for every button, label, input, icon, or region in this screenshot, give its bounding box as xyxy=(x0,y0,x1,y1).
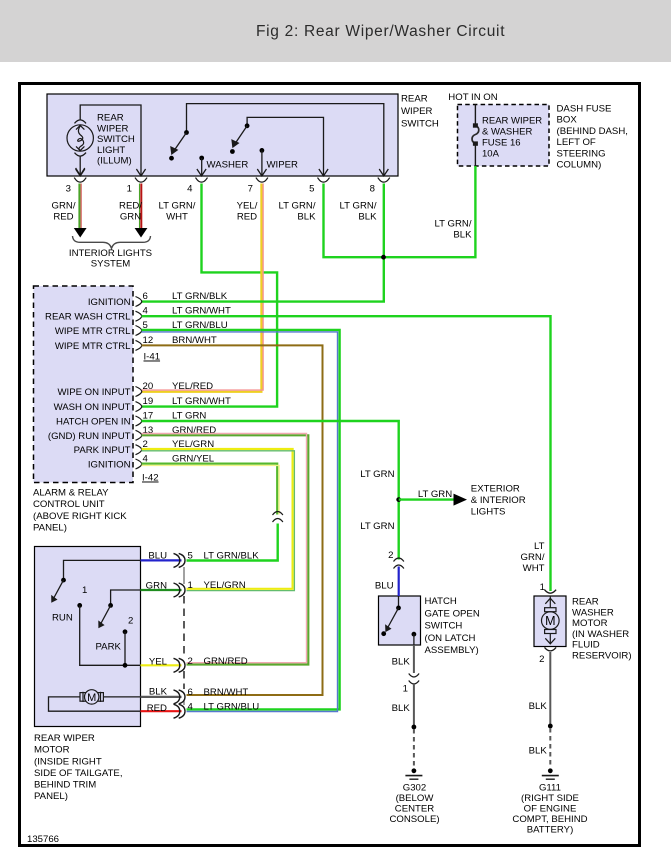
svg-text:REAR: REAR xyxy=(97,113,124,124)
INTERIOR LIGHTS SYSTEM label xyxy=(69,248,152,270)
control unit pin 4 rear wash xyxy=(45,306,231,323)
break splice hatch ground wire xyxy=(409,674,419,685)
svg-text:19: 19 xyxy=(143,396,154,407)
svg-text:2: 2 xyxy=(128,616,133,627)
washer motor internals xyxy=(542,596,560,644)
svg-text:7: 7 xyxy=(248,184,253,195)
hatch switch internals xyxy=(381,596,416,645)
junction exterior lights node xyxy=(396,497,401,502)
svg-text:WIPER: WIPER xyxy=(401,106,433,117)
svg-text:OF ENGINE: OF ENGINE xyxy=(524,803,577,814)
park switch feed line xyxy=(111,590,141,604)
YEL/RED label pin 7 xyxy=(237,201,258,223)
svg-text:PANEL): PANEL) xyxy=(34,791,68,802)
svg-text:GRN/: GRN/ xyxy=(52,201,76,212)
I-41 label xyxy=(144,352,161,363)
svg-text:LT GRN: LT GRN xyxy=(360,469,394,480)
connector pin 1 xyxy=(146,580,246,597)
svg-text:WASHER: WASHER xyxy=(572,607,614,618)
svg-text:COMPT, BEHIND: COMPT, BEHIND xyxy=(512,814,587,825)
svg-text:BLK: BLK xyxy=(149,687,168,698)
svg-text:FUSE 16: FUSE 16 xyxy=(482,138,521,149)
svg-text:SYSTEM: SYSTEM xyxy=(91,259,130,270)
LT GRN/WHT label pin 4 xyxy=(159,201,196,223)
svg-text:IGNITION: IGNITION xyxy=(88,460,131,471)
svg-text:RESERVOIR): RESERVOIR) xyxy=(572,651,632,662)
RUN label xyxy=(52,612,73,623)
svg-text:LT GRN: LT GRN xyxy=(418,489,452,500)
svg-text:1: 1 xyxy=(403,684,408,695)
wire GRN/YEL pin4 CU upper segment xyxy=(142,464,280,515)
svg-text:1: 1 xyxy=(127,184,132,195)
svg-text:M: M xyxy=(87,692,96,704)
G302 label xyxy=(389,782,439,825)
135766 id label xyxy=(27,834,59,845)
svg-text:6: 6 xyxy=(188,687,193,698)
wire BLK hatch lower xyxy=(413,683,415,727)
svg-text:YEL: YEL xyxy=(149,656,168,667)
svg-text:5: 5 xyxy=(188,550,193,561)
svg-text:(BELOW: (BELOW xyxy=(396,793,435,804)
svg-text:LIGHTS: LIGHTS xyxy=(471,506,506,517)
svg-text:BRN/WHT: BRN/WHT xyxy=(204,687,249,698)
pin 1 hatch label xyxy=(403,684,408,695)
BLK label hatch upper xyxy=(392,657,411,668)
junction hatch ground splice xyxy=(412,725,417,730)
svg-text:ALARM & RELAY: ALARM & RELAY xyxy=(33,487,109,498)
rear wiper switch light label xyxy=(97,113,135,167)
dashed BLK wire to G302 xyxy=(413,729,415,767)
G111 label xyxy=(512,782,587,835)
wire BLU to hatch switch xyxy=(398,567,400,597)
svg-text:BLU: BLU xyxy=(148,550,167,561)
wire GRN/RED pin13 CU to connector pin2 xyxy=(142,434,309,665)
GRN/RED label xyxy=(52,201,76,223)
svg-text:WASHER: WASHER xyxy=(207,160,249,171)
svg-text:DASH FUSE: DASH FUSE xyxy=(557,104,612,115)
svg-text:(BEHIND DASH,: (BEHIND DASH, xyxy=(557,126,628,137)
svg-text:RED: RED xyxy=(237,211,257,222)
svg-text:STEERING: STEERING xyxy=(557,148,606,159)
wire LT GRN pin17 CU to hatch switch xyxy=(142,421,399,560)
svg-text:LT GRN: LT GRN xyxy=(360,521,394,532)
svg-text:BOX: BOX xyxy=(557,115,578,126)
svg-text:SWITCH: SWITCH xyxy=(97,134,135,145)
wire RED motor xyxy=(141,710,182,712)
LT GRN label below junction xyxy=(360,521,394,532)
break splice hatch feed xyxy=(394,558,404,569)
control unit pin 12 xyxy=(55,335,217,352)
arrow to exterior lights xyxy=(399,489,467,506)
svg-text:CONSOLE): CONSOLE) xyxy=(389,814,439,825)
svg-text:PANEL): PANEL) xyxy=(33,523,67,534)
svg-text:20: 20 xyxy=(143,381,154,392)
RED/GRN label xyxy=(119,201,142,223)
svg-text:BLK: BLK xyxy=(392,703,411,714)
svg-text:RUN: RUN xyxy=(52,612,73,623)
EXTERIOR & INTERIOR LIGHTS label xyxy=(471,483,526,517)
pin 1 of switch xyxy=(127,169,147,195)
REAR WIPER SWITCH label xyxy=(401,94,439,130)
svg-text:LIGHT: LIGHT xyxy=(97,145,125,156)
wire LT GRN/BLK from fuse xyxy=(384,166,476,257)
WASHER label xyxy=(207,160,249,171)
LT GRN/BLK label pin 5 xyxy=(279,201,317,223)
bulb socket cup top xyxy=(75,120,87,124)
svg-text:LT GRN/: LT GRN/ xyxy=(340,201,377,212)
connector pin 6 xyxy=(149,687,249,704)
svg-text:SWITCH: SWITCH xyxy=(401,119,439,130)
svg-text:LT GRN/: LT GRN/ xyxy=(435,218,472,229)
svg-text:GRN/: GRN/ xyxy=(521,552,545,563)
bulb lower wire with arrow xyxy=(76,157,85,176)
svg-text:YEL/RED: YEL/RED xyxy=(172,381,213,392)
svg-text:BLK: BLK xyxy=(358,211,377,222)
I-42 label xyxy=(142,473,159,484)
svg-text:BRN/WHT: BRN/WHT xyxy=(172,335,217,346)
svg-text:ASSEMBLY): ASSEMBLY) xyxy=(425,645,479,656)
BLK label washer upper xyxy=(529,701,548,712)
svg-text:SIDE OF TAILGATE,: SIDE OF TAILGATE, xyxy=(34,768,123,779)
wire YEL/GRN pin2 CU to connector pin1 xyxy=(142,449,295,591)
svg-text:I-42: I-42 xyxy=(142,473,159,484)
control unit pin 6 xyxy=(88,291,228,308)
washer switch xyxy=(169,104,384,176)
svg-text:LT GRN/BLK: LT GRN/BLK xyxy=(204,550,260,561)
PARK label xyxy=(96,642,122,653)
connector pin 5 xyxy=(148,550,259,567)
wiper contact pin line xyxy=(260,148,265,175)
pin 1 washer motor xyxy=(540,582,556,593)
svg-text:WIPER: WIPER xyxy=(97,123,129,134)
fuse 16 element xyxy=(472,105,479,167)
svg-text:LT GRN/: LT GRN/ xyxy=(279,201,316,212)
svg-text:BLK: BLK xyxy=(529,701,548,712)
svg-text:(IN WASHER: (IN WASHER xyxy=(572,629,629,640)
dash fuse box xyxy=(458,105,550,167)
WIPER label xyxy=(267,160,299,171)
wire RED/GRN pin 1 xyxy=(135,184,148,238)
svg-text:12: 12 xyxy=(143,335,154,346)
wire GRN motor xyxy=(141,589,182,591)
LT GRN label above junction xyxy=(360,469,394,480)
svg-text:135766: 135766 xyxy=(27,834,59,845)
break splice on GRN/YEL wire xyxy=(273,512,283,523)
control unit pin 20 xyxy=(57,381,213,398)
HOT IN ON label xyxy=(448,92,497,103)
motor to RED exit line xyxy=(49,697,141,711)
svg-text:G111: G111 xyxy=(539,782,561,793)
svg-text:GRN: GRN xyxy=(120,211,141,222)
wiper switch xyxy=(230,117,324,175)
svg-text:8: 8 xyxy=(370,184,375,195)
BLK label washer lower xyxy=(529,745,548,756)
svg-text:CENTER: CENTER xyxy=(395,803,435,814)
svg-text:2: 2 xyxy=(188,656,193,667)
svg-text:6: 6 xyxy=(143,291,148,302)
BLU label xyxy=(375,580,394,591)
wire YEL/RED pin 7 to pin 20 xyxy=(142,184,264,392)
REAR WASHER MOTOR label xyxy=(572,597,632,662)
svg-text:PARK: PARK xyxy=(96,642,122,653)
pin 2 washer motor xyxy=(539,647,556,665)
washer contact pin line xyxy=(199,156,204,175)
svg-text:IGNITION: IGNITION xyxy=(88,297,131,308)
junction washer ground splice xyxy=(548,724,553,729)
svg-text:BATTERY): BATTERY) xyxy=(527,824,574,835)
svg-text:SWITCH: SWITCH xyxy=(425,621,463,632)
svg-text:3: 3 xyxy=(66,184,71,195)
svg-text:2: 2 xyxy=(388,550,393,561)
wire LT GRN/BLK pin 8 to pin 6 xyxy=(142,184,384,302)
svg-text:(ILLUM): (ILLUM) xyxy=(97,156,132,167)
motor to BLK exit line xyxy=(103,696,140,698)
svg-text:M: M xyxy=(545,614,555,628)
connector pin 2 xyxy=(149,656,248,673)
svg-text:WHT: WHT xyxy=(523,563,545,574)
svg-text:COLUMN): COLUMN) xyxy=(557,160,602,171)
svg-text:BLK: BLK xyxy=(297,211,316,222)
svg-text:PARK INPUT: PARK INPUT xyxy=(74,445,131,456)
svg-text:RED/: RED/ xyxy=(119,201,142,212)
control unit pin 13 xyxy=(48,425,216,442)
svg-text:WASH ON INPUT: WASH ON INPUT xyxy=(54,402,131,413)
svg-text:HATCH OPEN IN: HATCH OPEN IN xyxy=(56,417,131,428)
control unit pin 2 xyxy=(74,439,215,456)
junction park contact node xyxy=(123,663,128,668)
svg-text:(ON LATCH: (ON LATCH xyxy=(425,633,476,644)
junction fuse node xyxy=(381,255,386,260)
fuse label xyxy=(482,116,542,160)
svg-text:4: 4 xyxy=(188,702,194,713)
ground G302 xyxy=(405,768,422,779)
svg-text:& INTERIOR: & INTERIOR xyxy=(471,495,526,506)
svg-text:4: 4 xyxy=(187,184,193,195)
svg-text:MOTOR: MOTOR xyxy=(34,745,70,756)
rear wiper motor box xyxy=(35,547,141,727)
bulb socket cup bottom xyxy=(75,153,87,157)
alarm & relay control unit box xyxy=(34,286,134,483)
wire GRN/RED pin 3 xyxy=(74,184,87,238)
svg-text:& WASHER: & WASHER xyxy=(482,127,532,138)
svg-text:FLUID: FLUID xyxy=(572,640,600,651)
svg-text:GRN/RED: GRN/RED xyxy=(204,656,248,667)
svg-text:2: 2 xyxy=(539,654,544,665)
svg-text:BEHIND TRIM: BEHIND TRIM xyxy=(34,780,96,791)
svg-text:(ABOVE RIGHT KICK: (ABOVE RIGHT KICK xyxy=(33,511,127,522)
HATCH GATE OPEN SWITCH label xyxy=(425,596,480,656)
hatch gate open switch box xyxy=(379,596,421,645)
wire BRN/WHT pin12 CU to connector pin6 xyxy=(142,345,323,695)
svg-text:1: 1 xyxy=(188,580,193,591)
wire BLK washer upper xyxy=(549,652,551,726)
svg-text:MOTOR: MOTOR xyxy=(572,618,608,629)
svg-text:BLK: BLK xyxy=(529,745,548,756)
svg-text:(INSIDE RIGHT: (INSIDE RIGHT xyxy=(34,756,102,767)
rear wiper switch box xyxy=(47,94,398,176)
rear washer motor box xyxy=(534,596,566,647)
BLK label hatch lower xyxy=(392,703,411,714)
svg-text:INTERIOR LIGHTS: INTERIOR LIGHTS xyxy=(69,248,152,259)
wiper motor M1 xyxy=(80,690,103,704)
svg-text:WHT: WHT xyxy=(166,211,188,222)
interior lights brace xyxy=(73,236,151,248)
svg-text:BLU: BLU xyxy=(375,580,394,591)
wire YEL motor xyxy=(141,664,182,666)
svg-text:WIPE MTR CTRL: WIPE MTR CTRL xyxy=(55,326,131,337)
pin 2 hatch label xyxy=(388,550,393,561)
svg-text:5: 5 xyxy=(309,184,314,195)
pin 7 of switch xyxy=(248,169,268,195)
svg-text:10A: 10A xyxy=(482,149,500,160)
run switch xyxy=(51,578,66,603)
REAR WIPER MOTOR label xyxy=(34,733,123,802)
connector pin 4 xyxy=(147,702,259,719)
svg-text:LT GRN/WHT: LT GRN/WHT xyxy=(172,396,231,407)
svg-text:WIPE ON INPUT: WIPE ON INPUT xyxy=(57,387,130,398)
svg-text:REAR: REAR xyxy=(401,94,428,105)
LT GRN/WHT label washer xyxy=(521,541,545,574)
run switch feed line xyxy=(64,560,141,579)
svg-text:HATCH: HATCH xyxy=(425,596,457,607)
control unit pin 4 ignition xyxy=(88,454,215,471)
svg-text:RED: RED xyxy=(147,703,167,714)
wire LT GRN/BLU pin5 CU to connector pin4 xyxy=(142,330,340,712)
pin 5 of switch xyxy=(309,169,329,195)
wire LT GRN/BLK lower segment to connector pin5 xyxy=(187,524,278,561)
pin 3 of switch xyxy=(66,169,87,195)
svg-text:GATE OPEN: GATE OPEN xyxy=(425,608,480,619)
dashed BLK wire to G111 xyxy=(549,728,551,767)
svg-text:LT GRN/BLU: LT GRN/BLU xyxy=(204,702,260,713)
svg-text:LEFT OF: LEFT OF xyxy=(557,137,596,148)
svg-text:YEL/: YEL/ xyxy=(237,201,258,212)
LT GRN/BLK fuse wire label xyxy=(435,218,473,240)
svg-text:1: 1 xyxy=(540,582,545,593)
svg-text:BLK: BLK xyxy=(453,229,472,240)
wire BLK motor xyxy=(141,696,182,698)
svg-text:RED: RED xyxy=(53,211,73,222)
svg-text:G302: G302 xyxy=(403,782,426,793)
pin 8 of switch xyxy=(370,169,390,195)
svg-text:CONTROL UNIT: CONTROL UNIT xyxy=(33,499,105,510)
svg-text:WIPE MTR CTRL: WIPE MTR CTRL xyxy=(55,341,131,352)
svg-text:LT GRN/: LT GRN/ xyxy=(159,201,196,212)
svg-text:REAR: REAR xyxy=(572,597,599,608)
svg-text:I-41: I-41 xyxy=(144,352,161,363)
control unit pin 5 xyxy=(55,320,228,337)
ALARM & RELAY CONTROL UNIT label xyxy=(33,487,127,533)
wire LT GRN/BLK pin 5 to junction xyxy=(324,184,384,258)
svg-text:REAR WIPER: REAR WIPER xyxy=(34,733,95,744)
pin 4 of switch xyxy=(187,169,207,195)
switch light bulb xyxy=(67,125,93,151)
svg-text:(RIGHT SIDE: (RIGHT SIDE xyxy=(521,793,579,804)
wire LT GRN/WHT pin4 CU to washer motor xyxy=(142,316,551,591)
svg-text:BLK: BLK xyxy=(392,657,411,668)
svg-text:YEL/GRN: YEL/GRN xyxy=(204,580,246,591)
park contact 2 xyxy=(123,616,134,666)
svg-text:LT: LT xyxy=(534,541,545,552)
svg-text:(GND) RUN INPUT: (GND) RUN INPUT xyxy=(48,431,131,442)
svg-text:GRN: GRN xyxy=(146,581,167,592)
svg-text:EXTERIOR: EXTERIOR xyxy=(471,483,520,494)
ground G111 xyxy=(542,768,559,779)
LT GRN/BLK label pin 8 xyxy=(340,201,378,223)
connector dashed column xyxy=(183,567,185,705)
control unit pin 17 xyxy=(56,411,206,428)
switch light bulb wire top xyxy=(80,105,141,176)
svg-text:WIPER: WIPER xyxy=(267,160,299,171)
svg-text:HOT IN ON: HOT IN ON xyxy=(448,92,497,103)
svg-text:REAR WIPER: REAR WIPER xyxy=(482,116,542,127)
wire BLU motor xyxy=(141,559,182,561)
wire LT GRN/WHT pin 4 to pin 19 xyxy=(142,184,278,407)
control unit pin 19 xyxy=(54,396,231,413)
wire BLK hatch upper xyxy=(413,645,415,673)
svg-text:REAR WASH CTRL: REAR WASH CTRL xyxy=(45,312,131,323)
svg-text:LT GRN/BLK: LT GRN/BLK xyxy=(172,291,228,302)
run contact 1 xyxy=(77,585,140,665)
park switch xyxy=(98,603,113,628)
DASH FUSE BOX label xyxy=(557,104,628,171)
svg-text:1: 1 xyxy=(82,585,87,596)
